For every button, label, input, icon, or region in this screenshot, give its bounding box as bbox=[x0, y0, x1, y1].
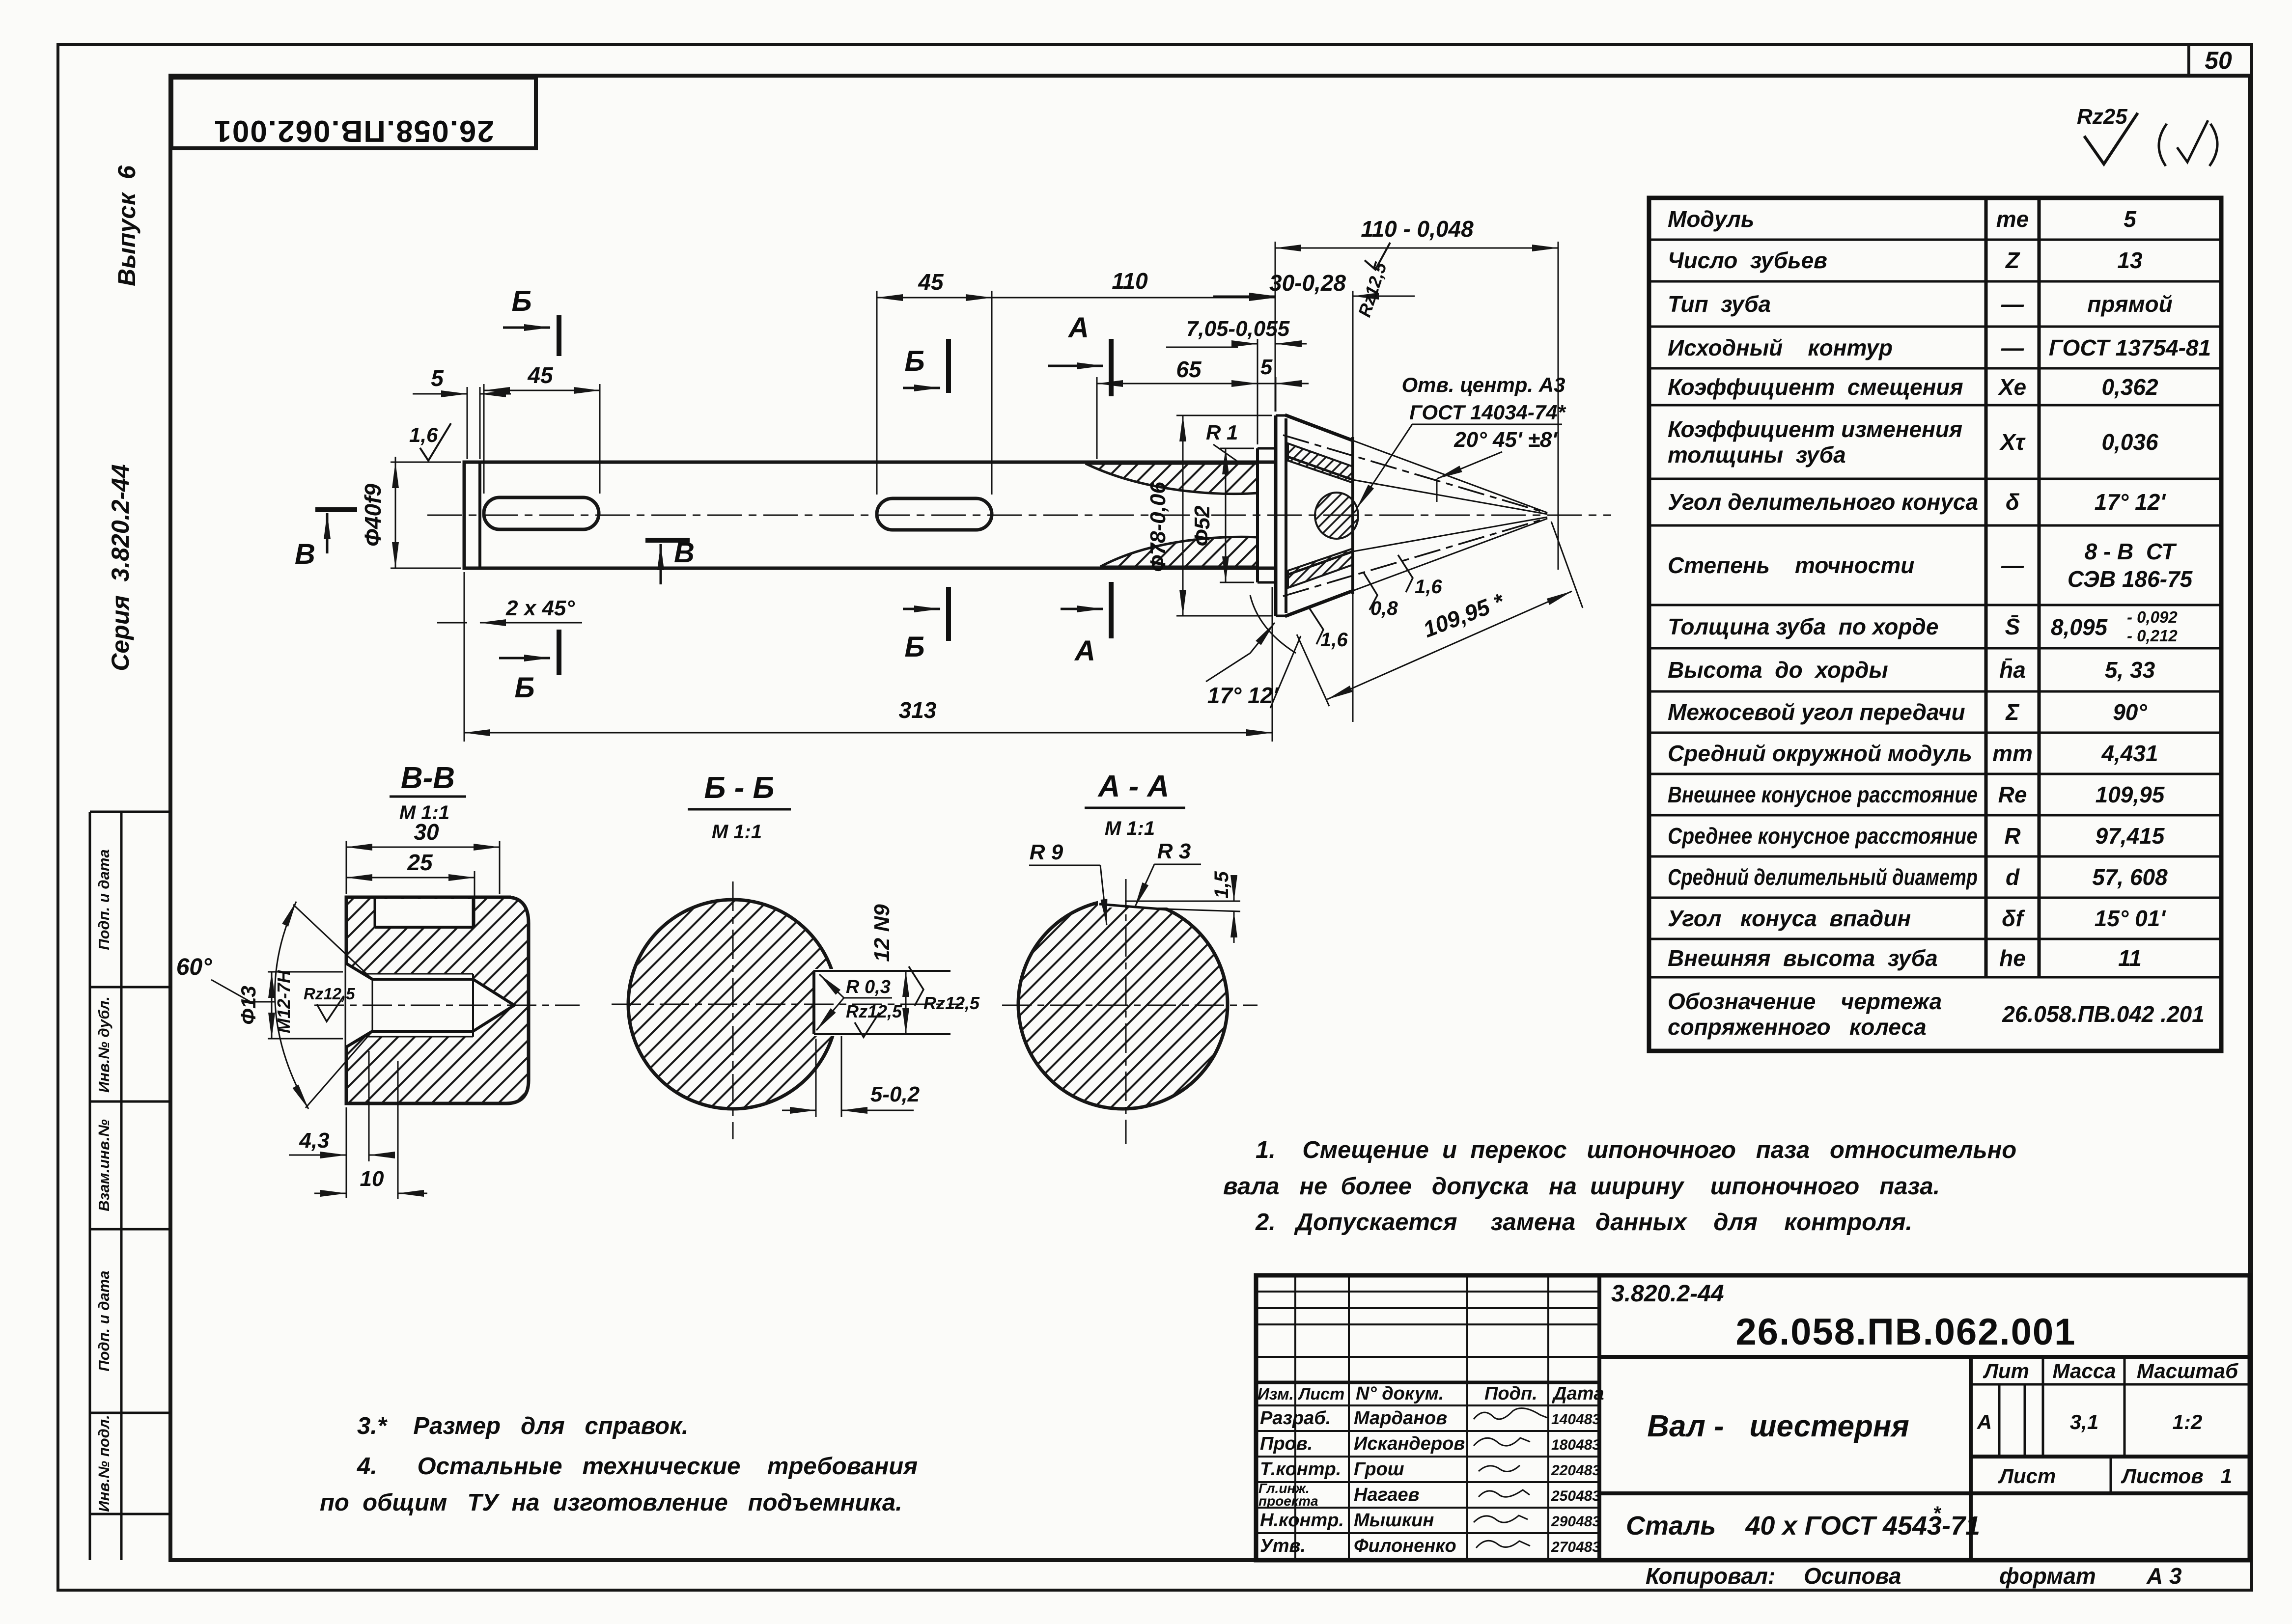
svg-text:толщины зуба: толщины зуба bbox=[1668, 442, 1846, 468]
keyway slot 2 bbox=[877, 498, 992, 530]
gear parameter table bbox=[1649, 198, 2221, 1051]
svg-text:17° 12': 17° 12' bbox=[2095, 489, 2167, 515]
bottom strip Копировал bbox=[1646, 1563, 2182, 1589]
gear hub face bbox=[1274, 415, 1278, 616]
svg-text:Осипова: Осипова bbox=[1804, 1563, 1901, 1589]
gear tooth runout bottom (hatched) bbox=[1100, 537, 1258, 567]
thread bore lines bbox=[372, 978, 473, 981]
section mark Б bottom-left bbox=[499, 630, 559, 704]
svg-text:R 0,3: R 0,3 bbox=[846, 977, 891, 997]
svg-text:ГОСТ 14034-74*: ГОСТ 14034-74* bbox=[1409, 401, 1566, 424]
margin box labels bbox=[95, 849, 112, 1512]
svg-text:2 x 45°: 2 x 45° bbox=[505, 596, 575, 620]
gear hub top edge bbox=[1276, 414, 1288, 417]
svg-text:1,5: 1,5 bbox=[1211, 871, 1232, 898]
А-А circle (hatched) bbox=[1018, 900, 1228, 1109]
svg-text:4,431: 4,431 bbox=[2101, 741, 2158, 766]
svg-text:Взам.инв.№: Взам.инв.№ bbox=[95, 1119, 112, 1211]
section mark В left bbox=[295, 510, 357, 570]
svg-text:1,6: 1,6 bbox=[409, 423, 438, 446]
svg-text:7,05-0,055: 7,05-0,055 bbox=[1186, 317, 1290, 341]
svg-text:проекта: проекта bbox=[1258, 1493, 1318, 1509]
svg-text:А: А bbox=[1074, 635, 1095, 667]
svg-text:- 0,092: - 0,092 bbox=[2127, 608, 2178, 626]
section mark Б top-left bbox=[503, 285, 559, 356]
svg-text:- 0,212: - 0,212 bbox=[2127, 627, 2178, 645]
svg-text:Инв.№ дубл.: Инв.№ дубл. bbox=[95, 996, 112, 1093]
svg-text:d: d bbox=[2006, 864, 2020, 890]
svg-text:А 3: А 3 bbox=[2146, 1563, 2182, 1589]
svg-text:М12-7Н: М12-7Н bbox=[274, 970, 294, 1033]
svg-text:Тип зуба: Тип зуба bbox=[1668, 291, 1771, 317]
svg-text:Угол делительного конуса: Угол делительного конуса bbox=[1668, 489, 1978, 515]
svg-text:Б: Б bbox=[514, 672, 534, 704]
svg-text:57, 608: 57, 608 bbox=[2092, 864, 2168, 890]
dim 12N9 bbox=[905, 971, 907, 1034]
threaded hole void bbox=[346, 963, 372, 1047]
inverted designation stamp box bbox=[171, 78, 536, 148]
svg-text:N° докум.: N° докум. bbox=[1356, 1383, 1444, 1404]
svg-text:30-0,28: 30-0,28 bbox=[1269, 270, 1346, 296]
Лит Масса Масштаб bbox=[1977, 1359, 2238, 1487]
gear hub chamfer line bbox=[1285, 418, 1287, 613]
collar bottom edge bbox=[1258, 581, 1276, 584]
dim 30 bbox=[346, 841, 500, 894]
Б-Б circle (hatched) bbox=[628, 900, 838, 1109]
svg-text:R: R bbox=[2004, 823, 2020, 849]
svg-text:1. Смещение и перекос ш: 1. Смещение и перекос шпоночного паза от… bbox=[1256, 1137, 2016, 1163]
tooth section hatched upper bbox=[1288, 443, 1353, 483]
dim 1,5 bbox=[1233, 879, 1235, 943]
signatures squiggles bbox=[1474, 1408, 1547, 1548]
dim Ф52 bbox=[1220, 448, 1254, 582]
svg-text:Разраб.: Разраб. bbox=[1260, 1408, 1331, 1429]
svg-text:Грош: Грош bbox=[1354, 1459, 1404, 1480]
gear back face bbox=[1352, 314, 1354, 722]
svg-text:сопряженного колеса: сопряженного колеса bbox=[1668, 1014, 1927, 1040]
page number box bbox=[2187, 45, 2190, 76]
svg-text:Ф13: Ф13 bbox=[237, 986, 260, 1025]
svg-text:Средний делительный диаметр: Средний делительный диаметр bbox=[1668, 864, 1978, 890]
svg-text:he: he bbox=[1999, 945, 2026, 971]
svg-text:Б: Б bbox=[904, 345, 924, 377]
svg-text:me: me bbox=[1996, 206, 2029, 232]
dim 45 keyway1 bbox=[484, 384, 600, 494]
pitch cone line upper bbox=[1283, 435, 1547, 513]
svg-text:110 - 0,048: 110 - 0,048 bbox=[1361, 216, 1474, 242]
thread end line bbox=[472, 974, 474, 1037]
TOPSTAMP bbox=[171, 78, 536, 148]
svg-text:Изм.: Изм. bbox=[1258, 1385, 1294, 1403]
shaft body bbox=[464, 462, 1276, 568]
svg-text:—: — bbox=[2001, 552, 2024, 578]
dim Ф78-0,06 bbox=[1176, 415, 1272, 616]
svg-text:Филоненко: Филоненко bbox=[1354, 1536, 1456, 1556]
svg-text:Б: Б bbox=[904, 631, 924, 663]
dim 45 keyway2 and 110 bbox=[877, 291, 1275, 495]
svg-text:Ф78-0,06: Ф78-0,06 bbox=[1146, 482, 1170, 572]
svg-text:Xτ: Xτ bbox=[1999, 429, 2026, 455]
gear hub bottom edge bbox=[1276, 615, 1288, 617]
left end chamfer line bbox=[478, 462, 481, 568]
svg-text:δf: δf bbox=[2002, 906, 2025, 931]
svg-text:8,095: 8,095 bbox=[2051, 614, 2108, 640]
svg-text:В-В: В-В bbox=[401, 761, 455, 795]
svg-text:90°: 90° bbox=[2113, 699, 2147, 725]
svg-text:Число зубьев: Число зубьев bbox=[1668, 248, 1827, 273]
left revision grid bbox=[1256, 1291, 1599, 1293]
SECTVV bbox=[176, 761, 580, 1199]
collar face bbox=[1256, 448, 1259, 582]
svg-text:Нагаев: Нагаев bbox=[1354, 1485, 1420, 1505]
title block outline bbox=[1256, 1275, 2250, 1560]
svg-text:—: — bbox=[2001, 335, 2024, 360]
collar top edge bbox=[1258, 447, 1276, 450]
SECTBB bbox=[612, 771, 980, 1139]
svg-text:Б: Б bbox=[511, 285, 531, 317]
svg-text:Подп. и дата: Подп. и дата bbox=[95, 849, 112, 950]
svg-text:0,036: 0,036 bbox=[2101, 429, 2158, 455]
dim Ф13 bbox=[268, 972, 343, 1039]
svg-text:97,415: 97,415 bbox=[2096, 823, 2165, 849]
svg-text:по общим ТУ на изготовлен: по общим ТУ на изготовление подъемника. bbox=[320, 1489, 902, 1516]
svg-text:5, 33: 5, 33 bbox=[2105, 657, 2155, 683]
MAINVIEW bbox=[295, 216, 1611, 742]
svg-text:Исходный контур: Исходный контур bbox=[1668, 335, 1893, 360]
dim 65 bbox=[1097, 377, 1258, 459]
svg-text:Σ: Σ bbox=[2005, 699, 2019, 725]
svg-text:R 1: R 1 bbox=[1206, 421, 1238, 444]
svg-text:Подп.: Подп. bbox=[1484, 1383, 1537, 1404]
svg-text:5: 5 bbox=[2124, 206, 2137, 232]
svg-text:Копировал:: Копировал: bbox=[1646, 1563, 1775, 1589]
flat extension bbox=[1165, 909, 1240, 911]
keyway groove bbox=[375, 899, 473, 927]
svg-text:δ: δ bbox=[2006, 489, 2020, 515]
svg-text:Rz12,5: Rz12,5 bbox=[304, 985, 355, 1003]
svg-text:Межосевой угол передачи: Межосевой угол передачи bbox=[1668, 699, 1965, 725]
SECTAA bbox=[1002, 770, 1258, 1144]
header labels bbox=[1258, 1383, 1604, 1556]
svg-text:5-0,2: 5-0,2 bbox=[870, 1082, 920, 1106]
keyway notch void bbox=[814, 969, 842, 1036]
svg-text:R 3: R 3 bbox=[1157, 839, 1191, 863]
svg-text:Ф40f9: Ф40f9 bbox=[360, 484, 386, 547]
svg-text:270483: 270483 bbox=[1551, 1539, 1600, 1555]
tooth root line lower bbox=[1285, 551, 1353, 576]
svg-text:180483: 180483 bbox=[1551, 1437, 1600, 1453]
section mark А top bbox=[1048, 312, 1111, 396]
svg-text:М 1:1: М 1:1 bbox=[1105, 818, 1155, 839]
section mark Б bottom-middle bbox=[903, 587, 949, 663]
hole centerline bbox=[314, 1005, 580, 1006]
svg-text:5: 5 bbox=[1260, 355, 1273, 379]
svg-text:Средний окружной модуль: Средний окружной модуль bbox=[1668, 741, 1972, 766]
svg-text:Коэффициент изменения: Коэффициент изменения bbox=[1668, 416, 1962, 442]
thread major lines bbox=[366, 973, 473, 975]
svg-text:Утв.: Утв. bbox=[1260, 1536, 1306, 1556]
NOTES bbox=[320, 1137, 2016, 1516]
svg-text:3,1: 3,1 bbox=[2070, 1410, 2098, 1433]
svg-text:Инв.№ подл.: Инв.№ подл. bbox=[95, 1415, 112, 1512]
svg-text:ГОСТ 13754-81: ГОСТ 13754-81 bbox=[2049, 335, 2211, 360]
svg-text:0,362: 0,362 bbox=[2101, 374, 2158, 400]
svg-text:Отв. центр. А3: Отв. центр. А3 bbox=[1401, 373, 1565, 396]
svg-text:Угол конуса впадин: Угол конуса впадин bbox=[1668, 906, 1911, 931]
svg-text:220483: 220483 bbox=[1551, 1462, 1600, 1479]
svg-text:26.058.ПВ.062.001: 26.058.ПВ.062.001 bbox=[213, 114, 494, 148]
roughness general mark Rz25 bbox=[2077, 105, 2217, 166]
dim 313 bbox=[464, 572, 1272, 742]
svg-text:mm: mm bbox=[1992, 741, 2033, 766]
svg-text:60°: 60° bbox=[176, 954, 212, 980]
svg-text:45: 45 bbox=[918, 269, 944, 295]
tooth tip line upper bbox=[1285, 415, 1353, 440]
pitch cone line lower bbox=[1283, 518, 1547, 596]
svg-text:Выпуск 6: Выпуск 6 bbox=[113, 165, 140, 286]
svg-text:Внешняя высота зуба: Внешняя высота зуба bbox=[1668, 945, 1938, 971]
name/material divider bbox=[1599, 1491, 2250, 1495]
svg-text:3.* Размер для справок.: 3.* Размер для справок. bbox=[357, 1413, 689, 1439]
svg-text:Xe: Xe bbox=[1997, 374, 2026, 400]
svg-text:Масса: Масса bbox=[2053, 1359, 2116, 1382]
center hole (hatched ellipse) bbox=[1315, 493, 1358, 539]
svg-text:h̄a: h̄a bbox=[1999, 657, 2026, 683]
svg-text:Б - Б: Б - Б bbox=[704, 771, 775, 805]
svg-text:45: 45 bbox=[527, 362, 554, 388]
svg-text:*: * bbox=[1933, 1503, 1942, 1524]
centerlines bbox=[612, 1004, 963, 1005]
svg-text:Rz25: Rz25 bbox=[2077, 105, 2127, 129]
svg-text:1:2: 1:2 bbox=[2173, 1410, 2203, 1433]
svg-text:Толщина зуба по хорде: Толщина зуба по хорде bbox=[1668, 614, 1938, 639]
svg-text:26.058.ПВ.042 .201: 26.058.ПВ.042 .201 bbox=[2002, 1001, 2205, 1027]
dim 110-0.048 bbox=[1275, 242, 1558, 570]
svg-text:13: 13 bbox=[2117, 248, 2143, 273]
svg-text:Внешнее конусное расстояние: Внешнее конусное расстояние bbox=[1668, 782, 1978, 807]
svg-text:Модуль: Модуль bbox=[1668, 206, 1754, 232]
svg-text:8 - В СТ: 8 - В СТ bbox=[2085, 539, 2178, 564]
svg-text:Вал - шестерня: Вал - шестерня bbox=[1647, 1409, 1909, 1443]
svg-text:25: 25 bbox=[407, 850, 433, 875]
dim 5-0.2 bbox=[782, 1036, 914, 1117]
svg-text:15° 01': 15° 01' bbox=[2095, 906, 2167, 931]
svg-text:СЭВ 186-75: СЭВ 186-75 bbox=[2068, 566, 2193, 592]
svg-text:Обозначение чертежа: Обозначение чертежа bbox=[1668, 989, 1942, 1014]
dim 4,3 bbox=[305, 1051, 393, 1198]
svg-text:Высота до хорды: Высота до хорды bbox=[1668, 657, 1888, 683]
keyway flat void bbox=[1098, 881, 1169, 908]
svg-text:140483: 140483 bbox=[1551, 1411, 1600, 1428]
dim Ф40f9 bbox=[391, 457, 461, 568]
section mark В bottom bbox=[645, 537, 695, 584]
svg-text:Н.контр.: Н.контр. bbox=[1260, 1510, 1344, 1531]
svg-text:17° 12': 17° 12' bbox=[1207, 683, 1280, 708]
svg-text:Лист: Лист bbox=[1297, 1385, 1344, 1404]
svg-text:формат: формат bbox=[1999, 1563, 2096, 1589]
svg-text:Степень точности: Степень точности bbox=[1668, 552, 1914, 578]
TABLE bbox=[1649, 198, 2221, 1051]
svg-text:65: 65 bbox=[1176, 357, 1202, 382]
svg-text:4. Остальные технически: 4. Остальные технические требования bbox=[357, 1453, 918, 1480]
svg-text:Искандеров: Искандеров bbox=[1354, 1433, 1465, 1454]
dim 10 bbox=[314, 1061, 427, 1199]
svg-text:Ф52: Ф52 bbox=[1190, 505, 1214, 547]
svg-text:290483: 290483 bbox=[1551, 1514, 1600, 1530]
svg-text:—: — bbox=[2001, 291, 2024, 317]
svg-text:2. Допускается замена: 2. Допускается замена данных для контрол… bbox=[1255, 1209, 1912, 1236]
tooth tip line lower bbox=[1285, 591, 1353, 616]
svg-text:Лист: Лист bbox=[1998, 1464, 2056, 1487]
dates bbox=[1551, 1411, 1600, 1555]
svg-text:Rz12,5: Rz12,5 bbox=[923, 993, 980, 1013]
svg-text:Т.контр.: Т.контр. bbox=[1260, 1459, 1341, 1480]
gear tooth runout top (hatched) bbox=[1086, 464, 1258, 494]
shaft centerline bbox=[427, 515, 1611, 516]
svg-text:Коэффициент смещения: Коэффициент смещения bbox=[1668, 374, 1963, 400]
dim 25 bbox=[346, 871, 475, 927]
centerlines bbox=[1002, 1005, 1258, 1006]
В-В body (hatched) bbox=[346, 897, 529, 1103]
svg-text:А: А bbox=[1067, 312, 1089, 344]
dim 109,95* bbox=[1297, 522, 1583, 706]
dim 5 left bbox=[413, 387, 511, 459]
svg-text:313: 313 bbox=[899, 697, 937, 723]
svg-text:12 N9: 12 N9 bbox=[870, 904, 894, 962]
bore cone point bbox=[473, 979, 514, 1031]
svg-text:Мышкин: Мышкин bbox=[1354, 1510, 1434, 1531]
svg-text:R 9: R 9 bbox=[1030, 840, 1063, 864]
svg-text:Пров.: Пров. bbox=[1260, 1433, 1313, 1454]
svg-text:Z: Z bbox=[2005, 248, 2020, 273]
countersink lines bbox=[346, 963, 372, 979]
svg-text:1,6: 1,6 bbox=[1415, 576, 1442, 598]
svg-text:5: 5 bbox=[431, 365, 444, 391]
designation cell bottom bbox=[1599, 1355, 2250, 1359]
svg-text:Масштаб: Масштаб bbox=[2137, 1359, 2238, 1382]
svg-text:11: 11 bbox=[2118, 945, 2142, 971]
svg-text:250483: 250483 bbox=[1551, 1488, 1600, 1504]
svg-text:110: 110 bbox=[1112, 268, 1148, 294]
tooth root line upper bbox=[1285, 456, 1353, 480]
svg-text:10: 10 bbox=[360, 1167, 384, 1191]
svg-text:Re: Re bbox=[1998, 782, 2027, 807]
svg-text:1,6: 1,6 bbox=[1320, 629, 1348, 651]
section mark А bottom bbox=[1061, 582, 1111, 667]
svg-text:26.058.ПВ.062.001: 26.058.ПВ.062.001 bbox=[1736, 1311, 2076, 1353]
svg-text:Серия 3.820.2-44: Серия 3.820.2-44 bbox=[107, 464, 134, 671]
svg-text:Сталь 40 х ГОСТ 4543-71: Сталь 40 х ГОСТ 4543-71 bbox=[1626, 1511, 1980, 1541]
svg-text:Листов 1: Листов 1 bbox=[2121, 1464, 2232, 1487]
svg-text:4,3: 4,3 bbox=[299, 1129, 329, 1153]
section mark Б top-middle bbox=[903, 339, 949, 393]
svg-text:Среднее конусное расстояние: Среднее конусное расстояние bbox=[1668, 823, 1978, 849]
margin boxes bbox=[90, 812, 170, 1560]
svg-text:Лит: Лит bbox=[1983, 1359, 2029, 1382]
keyway slot 1 bbox=[484, 497, 599, 529]
svg-text:30: 30 bbox=[414, 819, 439, 845]
svg-text:Дата: Дата bbox=[1552, 1383, 1604, 1404]
svg-text:вала не более допуска н: вала не более допуска на ширину шпоночно… bbox=[1223, 1173, 1940, 1200]
tooth section hatched lower bbox=[1288, 549, 1353, 588]
svg-text:Подп. и дата: Подп. и дата bbox=[95, 1270, 112, 1371]
svg-text:Rz12,5: Rz12,5 bbox=[846, 1001, 902, 1021]
svg-text:109,95: 109,95 bbox=[2096, 782, 2165, 807]
svg-text:20° 45' ±8': 20° 45' ±8' bbox=[1453, 428, 1558, 452]
svg-text:Марданов: Марданов bbox=[1354, 1408, 1447, 1429]
svg-text:S̄: S̄ bbox=[2005, 614, 2020, 639]
MARGIN bbox=[90, 165, 170, 1560]
svg-text:М 1:1: М 1:1 bbox=[712, 821, 762, 843]
svg-text:прямой: прямой bbox=[2087, 291, 2173, 317]
svg-text:50: 50 bbox=[2205, 47, 2232, 74]
svg-text:А - А: А - А bbox=[1097, 770, 1170, 803]
svg-text:В: В bbox=[295, 538, 315, 570]
svg-text:А: А bbox=[1977, 1410, 1992, 1433]
svg-text:3.820.2-44: 3.820.2-44 bbox=[1611, 1281, 1724, 1307]
